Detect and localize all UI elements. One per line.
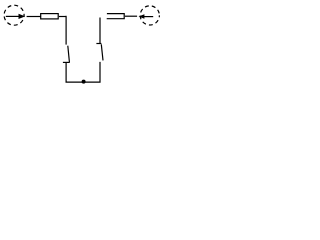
source I1 arrow shaft bbox=[6, 15, 19, 17]
wire corner down to switch S1 bbox=[65, 16, 67, 45]
wire S1 to bottom left corner bbox=[65, 62, 67, 82]
wire source I1 to R1 bbox=[27, 16, 41, 18]
switch S2 blade bbox=[101, 44, 103, 60]
source I1 arrowhead bbox=[19, 14, 26, 19]
source I2 arrowhead bbox=[139, 14, 145, 19]
source I2 dashed circle bbox=[140, 6, 159, 25]
source I1 dashed circle bbox=[4, 5, 24, 25]
bottom wire with corners bbox=[66, 62, 100, 82]
resistor R2 (open left side) bbox=[107, 14, 125, 19]
switch S1 contact bar bbox=[63, 61, 70, 63]
wire R2 to source I2 bbox=[125, 15, 137, 17]
switch S1 blade bbox=[68, 46, 70, 62]
resistor R1 bbox=[41, 14, 59, 19]
wire R1 to corner bbox=[59, 16, 66, 18]
switch S2 contact bar bbox=[96, 43, 101, 45]
junction dot bbox=[82, 80, 86, 84]
source I2 arrow shaft bbox=[144, 16, 153, 18]
wire S2 up to node bbox=[99, 18, 101, 44]
